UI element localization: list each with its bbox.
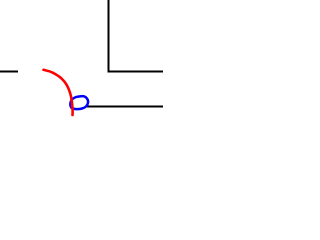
- left ledge line: [0, 71, 18, 73]
- right shelf line: [108, 71, 164, 73]
- blue loop: [70, 96, 88, 109]
- lower floor line: [87, 106, 163, 108]
- red trajectory curve: [44, 70, 73, 115]
- right vertical wall: [108, 0, 110, 72]
